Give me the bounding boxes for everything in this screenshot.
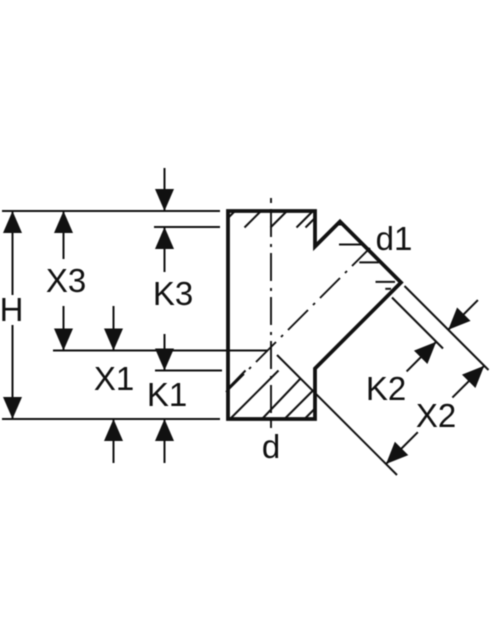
K1 upper extension line: [155, 370, 222, 372]
dimension K1 upper tail: [164, 334, 166, 371]
svg-text:K2: K2: [366, 370, 406, 407]
branch centerline (45 deg dash-dot): [226, 248, 370, 392]
top socket hatch line 2: [271, 212, 287, 228]
H bottom arrowhead: [3, 397, 22, 419]
svg-text:X3: X3: [46, 262, 86, 299]
X1 bottom arrowhead: [104, 419, 123, 441]
dimension X1 upper tail: [113, 306, 115, 351]
K2 lower arrow tail: [407, 342, 437, 372]
top socket hatch partial right: [306, 219, 315, 228]
branch face hatch tick 3: [359, 261, 379, 263]
X3 bottom arrowhead: [54, 329, 73, 351]
bottom socket hatch line 0: [228, 371, 246, 389]
svg-text:X2: X2: [416, 397, 456, 434]
dimension H line lower: [12, 325, 14, 419]
branch face hatch tick 5: [385, 288, 391, 290]
dimension K3 upper tail: [164, 168, 166, 211]
X1 top arrowhead: [104, 329, 123, 351]
X2 upper arrow tail: [452, 366, 484, 398]
dimension X3 upper tail: [63, 211, 65, 259]
bottom socket hatch line 2: [263, 379, 301, 419]
junction 45deg extension line: [277, 355, 397, 475]
svg-text:K1: K1: [147, 376, 187, 413]
bottom socket hatch line 4: [305, 409, 315, 419]
branch face hatch tick 4: [376, 281, 396, 283]
junction level extension line: [53, 350, 268, 352]
X2 upper arrowhead: [462, 359, 491, 388]
dimension K3 lower tail: [164, 227, 166, 272]
X2 lower arrow tail: [386, 432, 418, 464]
svg-text:d: d: [262, 428, 280, 465]
branch face hatch tick 2: [339, 244, 362, 246]
K3 bottom arrowhead: [155, 227, 174, 249]
svg-text:H: H: [0, 291, 23, 328]
top socket hatch line 1: [245, 212, 261, 228]
svg-text:K3: K3: [153, 275, 193, 312]
svg-text:X1: X1: [94, 360, 134, 397]
top socket hatch line 3: [297, 212, 313, 228]
K1 bottom arrowhead: [155, 419, 174, 441]
K1 top arrowhead: [155, 349, 174, 371]
bottom socket hatch line 1: [231, 371, 279, 419]
K3 lower extension line: [154, 226, 220, 228]
dimension X3 lower tail: [63, 306, 65, 351]
dimension K1 lower tail: [164, 419, 166, 463]
svg-text:d1: d1: [376, 220, 413, 257]
K2 inner extension line: [392, 298, 443, 349]
top socket hatch corner tick: [229, 211, 236, 218]
main pipe centerline (vertical dash-dot): [270, 198, 272, 428]
H top arrowhead: [3, 211, 22, 233]
K3 top arrowhead: [155, 189, 174, 211]
K2 lower arrowhead: [414, 335, 443, 364]
X2 lower arrowhead: [379, 442, 408, 471]
branch face hatch tick 1: [336, 224, 344, 226]
dimension H line upper: [12, 211, 14, 295]
top baseline extension line: [2, 210, 220, 212]
bottom baseline extension line: [2, 418, 220, 420]
bottom socket hatch line 3: [285, 390, 314, 419]
X3 top arrowhead: [54, 211, 73, 233]
fitting body outline: [228, 211, 401, 419]
K2 upper arrow tail: [448, 300, 478, 330]
branch face extension line: [405, 286, 489, 370]
dimension X1 lower tail: [113, 419, 115, 463]
K2 upper arrowhead: [442, 307, 471, 336]
